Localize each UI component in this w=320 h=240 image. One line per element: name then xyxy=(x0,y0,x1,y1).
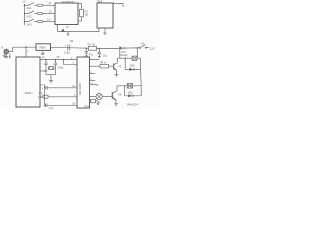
svg-text:R8 1k: R8 1k xyxy=(100,61,107,64)
svg-text:0.1μF: 0.1μF xyxy=(84,105,91,108)
svg-text:1N4148: 1N4148 xyxy=(119,55,128,57)
capacitor C8 xyxy=(45,103,78,110)
svg-text:47μ: 47μ xyxy=(89,53,94,56)
relay KA2 xyxy=(127,84,132,89)
svg-text:5k1: 5k1 xyxy=(85,14,90,17)
wire VD1 anode drop xyxy=(119,48,121,58)
wire V5 collector xyxy=(116,58,118,63)
svg-text:100μ: 100μ xyxy=(64,50,70,54)
wire crystal bottom xyxy=(46,74,56,76)
antenna arrow xyxy=(9,54,11,59)
wire +V column xyxy=(136,48,138,58)
svg-text:VD1: VD1 xyxy=(121,51,126,54)
ground under B xyxy=(4,54,8,59)
diode VD1 xyxy=(119,47,137,58)
node xyxy=(55,59,57,61)
capacitor C7 xyxy=(39,83,77,90)
svg-text:4.7μ: 4.7μ xyxy=(49,107,54,110)
wire to relay KA1 xyxy=(117,57,132,59)
wire V6 collector xyxy=(116,86,118,91)
wire U4 pin13 stub xyxy=(90,83,98,86)
wire relay1 left column xyxy=(124,58,126,69)
svg-text:TA7698AP: TA7698AP xyxy=(62,1,74,4)
wire U1 bottom pin xyxy=(58,25,70,32)
wire U4 pin8 stub xyxy=(90,79,96,81)
ground stub mid rail xyxy=(67,32,70,36)
lamp H xyxy=(90,94,113,100)
ground crystal xyxy=(49,75,53,83)
svg-text:12V: 12V xyxy=(150,46,155,50)
svg-text:SA3: SA3 xyxy=(27,23,32,27)
wire U2 bottom pins xyxy=(99,28,105,33)
switch SA3 xyxy=(24,18,55,27)
op-amp U2 xyxy=(97,0,114,28)
svg-text:SA1: SA1 xyxy=(27,6,32,10)
diode VD5 xyxy=(125,65,140,71)
node xyxy=(63,59,65,61)
ground under V6 xyxy=(114,100,118,106)
svg-text:SA2: SA2 xyxy=(27,14,32,18)
wire relay2 left column xyxy=(124,86,126,96)
relay KA1 xyxy=(132,56,141,60)
crystal B1 3.58M xyxy=(40,66,54,73)
buzzer B xyxy=(2,47,9,54)
wire B to rail xyxy=(9,47,36,51)
wire power rail xyxy=(51,46,89,49)
svg-text:R1 7Ω: R1 7Ω xyxy=(88,43,95,47)
op-amp U1 TA7680 xyxy=(55,1,78,25)
capacitor C2 xyxy=(85,48,94,57)
ground under U2 xyxy=(103,33,106,34)
svg-text:10.: 10. xyxy=(23,0,27,3)
svg-text:VD6: VD6 xyxy=(128,91,133,94)
svg-text:22μ: 22μ xyxy=(103,55,108,58)
transistor V5 xyxy=(114,63,122,70)
transistor V6 xyxy=(112,91,122,100)
wire to U4 pin3 xyxy=(64,57,78,65)
ground under 7806 xyxy=(41,50,45,54)
wire left feedback column xyxy=(44,84,46,107)
capacitor C5 xyxy=(54,56,64,75)
wire U4 pin11 stub xyxy=(90,59,100,61)
wire U4 pin9 stub xyxy=(90,72,96,74)
resistor R5 xyxy=(78,4,89,21)
capacitor C4 xyxy=(42,56,48,75)
svg-text:0.1: 0.1 xyxy=(39,87,43,90)
switch SA xyxy=(137,42,149,49)
regulator U5 7806 xyxy=(36,44,51,51)
node xyxy=(137,47,139,49)
IC U4 KD-9300 xyxy=(77,57,90,108)
antenna ground xyxy=(3,53,7,58)
node xyxy=(45,59,47,61)
node xyxy=(125,58,126,59)
IC U3 XR6C xyxy=(16,57,40,107)
switch SA1 xyxy=(24,1,55,10)
svg-text:3.58M: 3.58M xyxy=(40,69,47,73)
resistor R1 xyxy=(88,43,97,51)
node common bus of switches xyxy=(24,4,26,25)
svg-text:200p: 200p xyxy=(58,65,64,69)
wire crystal top rail xyxy=(40,59,77,61)
node arrow marker xyxy=(61,28,64,31)
node xyxy=(86,47,88,49)
wire rail U1-U2 xyxy=(58,31,100,33)
node feed U3 xyxy=(25,46,29,57)
capacitor C3 xyxy=(98,49,108,58)
svg-text:SA: SA xyxy=(141,42,145,46)
node xyxy=(124,85,125,86)
svg-text:1M: 1M xyxy=(70,39,74,43)
wire U2 top hook xyxy=(113,4,123,7)
svg-text:KD-9300: KD-9300 xyxy=(78,83,82,95)
capacitor C1 xyxy=(64,44,70,54)
resistor R8 xyxy=(90,61,114,68)
resistor R9 xyxy=(38,92,77,99)
switch SA2 xyxy=(24,9,55,18)
wire rail right xyxy=(97,47,120,49)
svg-text:7806: 7806 xyxy=(39,46,46,50)
svg-text:7808: 7808 xyxy=(97,0,103,4)
ground under V5 xyxy=(115,70,119,77)
svg-text:XR6C: XR6C xyxy=(25,91,34,95)
wire to relay KA2 xyxy=(117,85,141,87)
svg-text:VD5: VD5 xyxy=(130,65,135,68)
resistor R10 xyxy=(84,99,100,108)
diode VD6 xyxy=(125,91,142,97)
svg-text:1N4002×7: 1N4002×7 xyxy=(127,103,140,107)
node xyxy=(99,48,101,50)
